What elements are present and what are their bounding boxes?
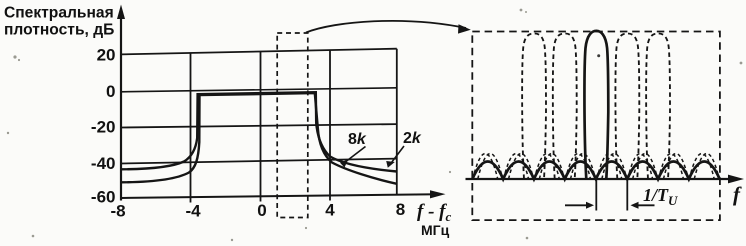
svg-text:МГц: МГц (421, 222, 450, 238)
svg-text:плотность, дБ: плотность, дБ (4, 22, 114, 39)
dashed main lobe 1 (522, 34, 546, 180)
spectrum curve 2k (upper) (121, 92, 397, 171)
solid main lobe (central) (584, 31, 608, 179)
svg-text:8: 8 (396, 200, 405, 219)
label arrow 2k (390, 146, 404, 165)
connecting curved arrow (306, 21, 466, 33)
y-axis (120, 16, 122, 201)
stray dot inside solid main lobe (597, 54, 600, 57)
x-axis (-60 dB line) (121, 194, 438, 198)
label arrow 8k (344, 147, 366, 164)
svg-text:Спектральная: Спектральная (4, 5, 114, 22)
1/Tu right tick (626, 179, 628, 211)
1/Tu left arrow (565, 204, 588, 206)
1/Tu right arrow (636, 204, 655, 206)
dashed zoom box on left chart (277, 33, 308, 218)
tick -4 (190, 197, 192, 202)
gridline 4 MHz (329, 50, 331, 195)
tick 0 (260, 196, 262, 201)
right panel dashed box (472, 32, 720, 221)
spectrum curve 8k (lower) (121, 93, 397, 184)
svg-text:4: 4 (325, 201, 335, 220)
svg-text:8k: 8k (348, 131, 367, 148)
gridline 8 MHz (396, 49, 398, 195)
gridline 0 MHz (260, 52, 262, 197)
dashed main lobe 3 (615, 34, 639, 180)
gridline 0 dB (121, 88, 397, 92)
f axis of right panel (466, 178, 731, 180)
gridline -20 dB (121, 124, 397, 127)
svg-text:-20: -20 (91, 118, 116, 137)
y-axis arrowhead (117, 5, 125, 20)
svg-text:0: 0 (257, 201, 266, 220)
svg-text:2k: 2k (403, 130, 422, 147)
1/Tu left tick (595, 179, 597, 211)
dashed main lobe 2 (553, 34, 577, 180)
svg-text:20: 20 (97, 46, 116, 65)
svg-text:-40: -40 (91, 154, 116, 173)
svg-text:0: 0 (106, 82, 115, 101)
dashed main lobe 4 (646, 34, 670, 180)
f axis arrowhead (728, 175, 744, 184)
solid sidelobe bumps along axis (472, 162, 719, 180)
gridline 20 dB (121, 49, 397, 55)
dashed sidelobe bumps overlay (473, 154, 720, 180)
gridline -40 dB (121, 159, 397, 164)
svg-text:-4: -4 (185, 202, 201, 221)
tick 4 (329, 195, 331, 200)
svg-text:-8: -8 (110, 202, 125, 221)
gridline -4 MHz (190, 53, 192, 197)
x-axis arrowhead (430, 190, 446, 198)
